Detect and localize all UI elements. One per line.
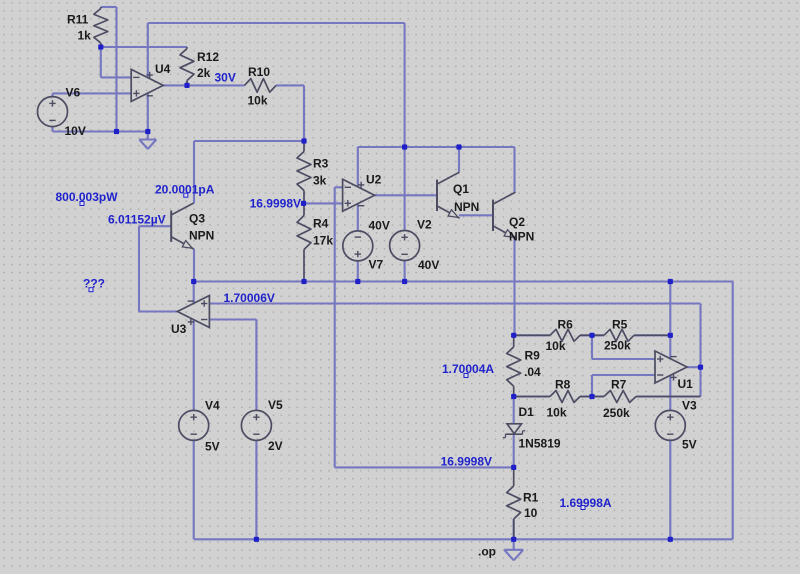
wire V7 minus to rail [357,261,359,282]
svg-text:1.69998A: 1.69998A [560,496,612,510]
wire right edge vertical [732,282,734,540]
svg-text:Q3: Q3 [189,212,205,226]
node R9 top [511,333,516,338]
ground stem at U4 [147,132,149,140]
node Q1 collector [456,144,461,149]
svg-text:R12: R12 [197,50,219,64]
svg-text:R9: R9 [525,349,541,363]
op-amp U2 [343,179,375,211]
wire R8 to R7 node [580,395,604,397]
svg-text:3k: 3k [313,174,327,188]
node R4 bottom on rail [301,279,306,284]
svg-text:Q1: Q1 [453,182,469,196]
svg-text:R4: R4 [313,217,329,231]
wire U3 top supply [193,282,195,304]
resistor R1 [507,467,521,539]
svg-text:17k: 17k [313,234,333,248]
diode D1 [503,424,525,438]
ground stem bottom [513,539,515,550]
svg-text:5V: 5V [682,438,697,452]
svg-text:V3: V3 [682,399,697,413]
voltage source V4 [179,410,209,440]
node 16.9998V at D1 [511,465,516,470]
svg-text:40V: 40V [418,258,439,272]
node R9 bottom / R8 [511,394,516,399]
svg-text:10: 10 [524,506,538,520]
wire U2 minus input stub [335,186,343,188]
svg-text:V6: V6 [66,86,81,100]
resistor R3 [297,141,311,203]
ground at U4 supply [139,140,156,150]
wire R7 to output vertical [636,395,701,397]
resistor R4 [297,203,311,281]
svg-text:2V: 2V [268,439,283,453]
svg-text:40V: 40V [369,219,390,233]
svg-text:.op: .op [478,545,496,559]
svg-text:R6: R6 [558,318,574,332]
svg-text:U4: U4 [155,62,171,76]
wire node to U4 inverting input [101,47,131,77]
wire U3 plus input to V5 [209,320,256,411]
wire positive supply row to Q1 Q2 collectors [358,147,515,192]
node V2 bottom on rail [402,279,407,284]
node rail at x670 [668,279,673,284]
transistor Q1 [437,172,460,218]
wire R9 node row to R6 [514,334,550,336]
node V5 bottom on bottom rail [254,537,259,542]
svg-text:V2: V2 [417,218,432,232]
marker 1.70004A [464,374,468,378]
svg-text:16.9998V: 16.9998V [250,197,301,211]
svg-text:Q2: Q2 [509,215,525,229]
wire D1 top lead [513,397,515,424]
transistor Q3 [171,203,194,249]
wire Q3 emitter to rail [193,249,195,282]
wire U1 bottom supply to V3 [669,375,671,410]
voltage source V5 [241,410,271,440]
svg-text:R11: R11 [67,13,89,27]
node A top feed [402,144,407,149]
node V3 bottom on bottom rail [668,537,673,542]
node 16.9998V divider [301,201,306,206]
wire R6/R5 node down to U1 plus input [592,335,655,359]
wire U2 minus feedback down to 16.9998V net [335,187,514,467]
node R6/R5 junction [589,333,594,338]
node 30V at U4 output [184,83,189,88]
svg-text:R5: R5 [612,318,628,332]
op-amp U3 [177,296,209,328]
node V7 bottom on rail [355,279,360,284]
wire R9 bottom node to R8 [514,395,550,397]
svg-text:.04: .04 [524,365,541,379]
wire V5 minus to bottom rail [255,440,257,539]
svg-text:10k: 10k [248,94,268,108]
resistor R10 [245,79,277,93]
svg-text:U1: U1 [678,377,694,391]
wire U2 top supply [357,147,359,187]
resistor R6 [514,329,592,341]
svg-text:2k: 2k [197,66,211,80]
marker 20.0001pA [184,193,188,197]
svg-text:R7: R7 [611,378,627,392]
resistor R12 [180,47,194,85]
node R8/R7 junction [589,394,594,399]
wire V6 minus to ground rail 10V [53,127,148,132]
svg-text:V7: V7 [369,258,384,272]
node 10V rail at U4 supply [145,129,150,134]
wire node R11-bottom to R12 top [101,46,187,48]
wire Q2 emitter down to R9 node [513,236,515,336]
svg-text:V4: V4 [205,399,220,413]
wire Q1 collector stub [458,147,460,172]
svg-text:R1: R1 [523,491,539,505]
svg-text:NPN: NPN [509,230,534,244]
svg-text:U2: U2 [366,173,382,187]
wire U1 minus input to R8/R7 node [592,375,655,397]
wire U4 bottom supply to rail [147,93,149,131]
svg-text:D1: D1 [519,405,535,419]
node R5 right / U1 supply [668,333,673,338]
wire mid rail [194,280,733,282]
wire V6 plus to U4 non-inverting input [53,92,132,94]
voltage source V2 [390,231,420,261]
voltage source V7 [343,231,373,261]
wire node R3-top to Q3 collector [194,141,304,203]
svg-text:1.70006V: 1.70006V [224,291,275,305]
resistor R11 [94,7,108,47]
wire R11 top lead to vertical rail [101,7,117,132]
svg-text:10V: 10V [65,124,86,138]
svg-text:R8: R8 [555,378,571,392]
svg-text:1k: 1k [78,29,92,43]
wire U3 bottom supply to V4 [193,320,195,411]
svg-text:R3: R3 [313,157,329,171]
wire R10 to R3 top corner [276,85,304,141]
wire U4 output to R10 [163,84,244,86]
wire top-right node down to U1 supply [669,282,671,359]
svg-text:30V: 30V [215,71,236,85]
wire V2 top lead [404,147,406,231]
svg-text:250k: 250k [604,339,631,353]
op-amp U1 [655,351,687,383]
wire U4 top supply up and across to node A [148,23,405,147]
op-amp U4 [131,69,163,101]
ground at bottom rail [504,550,523,561]
svg-text:R10: R10 [248,65,270,79]
node U3 supply on rail [191,279,196,284]
svg-text:???: ??? [83,277,105,291]
wire U2 output to Q1 base [375,194,437,196]
svg-text:NPN: NPN [189,229,214,243]
svg-text:16.9998V: 16.9998V [441,454,492,468]
svg-text:250k: 250k [603,406,630,420]
wire R6 to R5 node [580,334,604,336]
wire U2 bottom supply to V7 [357,204,359,231]
resistor R5 [592,329,670,341]
wire Q1 emitter to Q2 base [459,214,493,216]
svg-text:800.003pW: 800.003pW [56,190,119,204]
wire V2 bottom to rail [404,261,406,282]
svg-text:NPN: NPN [454,200,479,214]
wire D1 bottom to 16.9998V node [513,434,515,467]
svg-text:U3: U3 [171,322,187,336]
resistor R8 [514,391,592,403]
wire U1 output [687,366,701,368]
wire R5 to supply node [634,334,670,336]
resistor R9 [507,335,521,396]
voltage source V6 [38,97,68,127]
voltage source V3 [655,410,685,440]
wire Q3 base from U3 output [139,226,177,311]
wire bottom rail [194,538,733,540]
svg-text:V5: V5 [268,398,283,412]
marker ??? [89,288,93,292]
wire V3 minus to bottom rail [669,440,671,539]
wire V6 top lead [51,93,53,96]
node R10/R3 junction [301,138,306,143]
svg-text:1N5819: 1N5819 [519,437,561,451]
svg-text:10k: 10k [547,406,567,420]
svg-text:6.01152µV: 6.01152µV [108,212,166,226]
wire node 1.70006V long feedback [209,304,700,397]
resistor R7 [592,391,701,403]
node R1 bottom on bottom rail [511,537,516,542]
node U1 output [698,365,703,370]
wire V4 minus to bottom rail [193,440,195,539]
node 10V rail at x116 [114,129,119,134]
svg-text:5V: 5V [205,440,220,454]
marker 800.003pW [80,202,84,206]
marker 1.69998A [581,506,585,510]
wire R1 to bottom rail lead [513,519,515,539]
node R11/R12 junction [98,44,103,49]
svg-text:10k: 10k [546,339,566,353]
transistor Q2 [493,192,516,238]
wire R3/R4 node to U2 plus input [304,202,343,204]
